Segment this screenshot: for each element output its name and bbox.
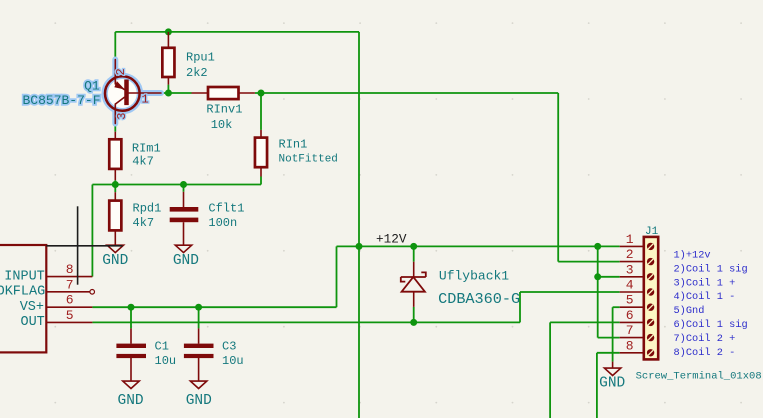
svg-text:3: 3 [115,113,129,120]
svg-text:C3: C3 [222,340,236,354]
svg-text:Cflt1: Cflt1 [208,202,244,216]
svg-text:GND: GND [173,253,199,269]
svg-text:Rpd1: Rpd1 [133,202,162,216]
svg-text:4k7: 4k7 [132,154,154,168]
svg-text:+12V: +12V [376,231,407,246]
svg-text:2k2: 2k2 [186,66,208,80]
svg-text:C1: C1 [155,340,169,354]
svg-text:6: 6 [66,293,74,308]
svg-text:7: 7 [626,323,634,338]
svg-text:1: 1 [142,93,149,107]
svg-text:6)Coil 1 sig: 6)Coil 1 sig [674,319,748,331]
svg-text:Rpu1: Rpu1 [186,51,215,65]
svg-text:1)+12v: 1)+12v [674,250,711,262]
svg-text:GND: GND [118,393,144,409]
svg-text:8: 8 [66,262,74,277]
svg-text:8: 8 [626,338,634,353]
svg-text:6: 6 [626,308,634,323]
svg-text:INPUT: INPUT [4,269,45,284]
svg-text:J1: J1 [645,226,659,238]
svg-text:3)Coil 1 +: 3)Coil 1 + [674,277,736,289]
svg-text:2)Coil 1 sig: 2)Coil 1 sig [674,263,748,275]
svg-text:3: 3 [626,262,634,277]
svg-text:100n: 100n [208,216,237,230]
svg-text:GND: GND [599,375,625,391]
svg-text:4)Coil 1 -: 4)Coil 1 - [674,291,736,303]
svg-text:5)Gnd: 5)Gnd [674,305,705,317]
svg-text:RIn1: RIn1 [279,138,308,152]
svg-text:5: 5 [626,293,634,308]
svg-text:5: 5 [66,308,74,323]
svg-text:10u: 10u [222,354,244,368]
svg-text:2: 2 [626,247,634,262]
svg-text:2: 2 [114,68,128,75]
svg-text:4: 4 [626,278,634,293]
svg-text:Uflyback1: Uflyback1 [439,269,509,284]
svg-text:OUT: OUT [20,315,44,330]
svg-text:BC857B-7-F: BC857B-7-F [23,93,101,108]
svg-text:VS+: VS+ [20,300,44,315]
svg-text:GND: GND [186,393,212,409]
svg-text:OKFLAG: OKFLAG [0,285,45,300]
svg-text:7: 7 [66,277,74,292]
svg-text:RInv1: RInv1 [206,103,242,117]
svg-text:Q1: Q1 [84,79,100,94]
svg-text:GND: GND [102,253,128,269]
svg-text:RIm1: RIm1 [132,141,161,155]
svg-text:8)Coil 2 -: 8)Coil 2 - [674,347,736,359]
svg-text:4k7: 4k7 [133,216,155,230]
svg-text:7)Coil 2 +: 7)Coil 2 + [674,333,736,345]
svg-text:10k: 10k [211,118,233,132]
svg-text:Screw_Terminal_01x08: Screw_Terminal_01x08 [636,370,762,382]
svg-text:CDBA360-G: CDBA360-G [438,290,520,308]
svg-text:NotFitted: NotFitted [279,154,338,166]
svg-text:10u: 10u [155,354,177,368]
svg-text:1: 1 [626,232,634,247]
